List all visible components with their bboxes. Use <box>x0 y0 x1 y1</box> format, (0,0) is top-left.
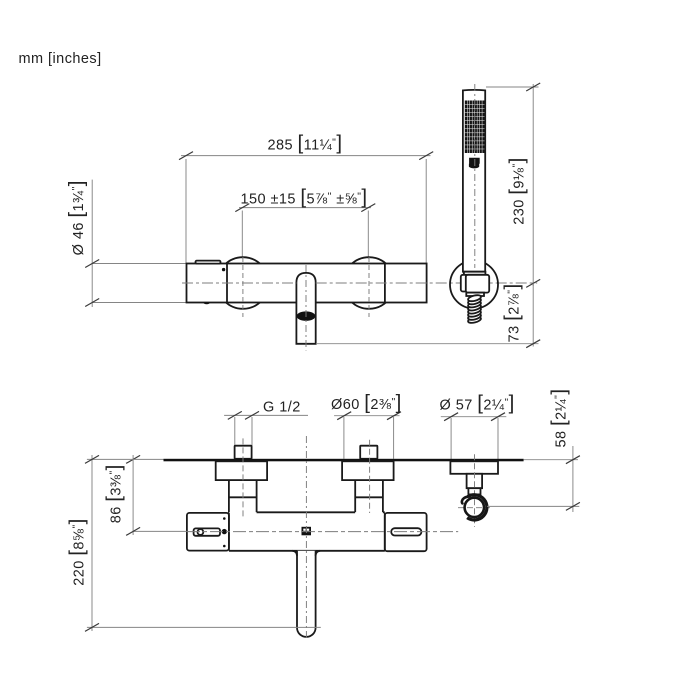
left handle slot <box>194 528 220 535</box>
hand shower centerline <box>474 84 476 268</box>
main axis centerline bottom view <box>305 436 307 641</box>
bar centerline <box>182 282 296 284</box>
escutcheon centerline left <box>242 257 244 317</box>
neck right <box>355 480 383 512</box>
diameter 60 dimension <box>334 412 401 459</box>
hand shower nozzle dark <box>469 158 480 169</box>
hook neck <box>467 474 483 488</box>
dimension 230 line <box>486 83 540 287</box>
dark bump under bar <box>203 302 210 304</box>
escutcheon circle right <box>343 257 395 309</box>
hook neck small <box>468 488 480 494</box>
joint dots <box>223 517 226 520</box>
G half nipple left <box>235 446 252 459</box>
G 1/2 dimension <box>224 411 308 445</box>
connector centerline left <box>242 438 244 518</box>
svg-text:mm [inches]: mm [inches] <box>19 51 102 67</box>
joint left cap <box>226 264 228 303</box>
spout outlet dark ellipse <box>297 311 316 321</box>
left handle block <box>187 513 229 551</box>
temperature lever <box>196 261 221 264</box>
hook centerline vertical <box>474 454 476 527</box>
spout plan <box>297 551 316 637</box>
hook curl tip <box>462 497 468 504</box>
holder block <box>466 275 489 293</box>
dimension 73 line <box>316 283 540 347</box>
diameter 57 dimension <box>441 413 507 462</box>
connector centerline right <box>369 440 371 513</box>
wall plate <box>164 459 524 462</box>
body-block joint left <box>228 513 230 551</box>
spout (front view) <box>296 273 315 344</box>
logo plate <box>302 527 312 536</box>
small dot on bar <box>222 268 225 271</box>
hand shower texture <box>465 101 485 154</box>
joint right cap <box>384 264 386 303</box>
dimension 86 <box>126 455 187 535</box>
escutcheon plan left <box>216 461 267 480</box>
right handle slot <box>391 528 421 535</box>
G half nipple right <box>360 446 377 459</box>
mixer body plan <box>229 512 385 551</box>
holder clamp <box>461 275 467 292</box>
escutcheon circle left <box>217 257 269 309</box>
hook ring <box>465 498 484 517</box>
hand shower tube <box>463 90 485 272</box>
body centerline <box>187 531 458 533</box>
right handle block <box>385 513 427 551</box>
wall bracket circle <box>450 261 498 309</box>
svg-text:G 1/2: G 1/2 <box>263 400 301 416</box>
dimension 150 line <box>235 204 375 259</box>
dimension 58 <box>487 446 580 512</box>
dimension 285 line <box>179 152 433 264</box>
hook flange <box>450 461 498 474</box>
spout centerline <box>305 265 307 351</box>
dimension 220 <box>85 455 321 631</box>
mixer bar body <box>187 264 427 303</box>
escutcheon centerline right <box>368 257 370 317</box>
body-block joint right <box>384 513 386 551</box>
spout fillet left <box>293 551 298 556</box>
shower hose coil <box>467 294 481 324</box>
escutcheon plan right <box>342 461 394 480</box>
holder bottom flange <box>466 293 484 296</box>
spout fillet right <box>316 551 321 556</box>
neck left <box>229 480 257 513</box>
holder top flange <box>464 272 486 275</box>
hook centerline horizontal <box>458 507 490 509</box>
hook outer band <box>467 495 487 520</box>
dimension diameter 46 line <box>85 180 186 307</box>
